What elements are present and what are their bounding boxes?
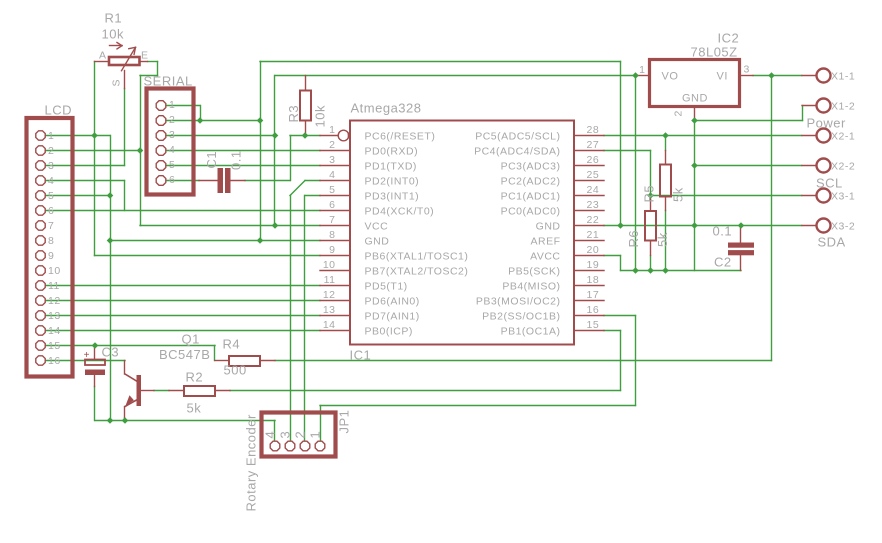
svg-text:9: 9 — [48, 250, 54, 262]
svg-text:25: 25 — [587, 169, 600, 181]
svg-text:Atmega328: Atmega328 — [351, 101, 422, 116]
svg-text:PB3(MOSI/OC2): PB3(MOSI/OC2) — [476, 295, 561, 307]
svg-text:X3-2: X3-2 — [831, 221, 855, 233]
svg-text:GND: GND — [682, 93, 708, 105]
svg-text:PB2(SS/OC1B): PB2(SS/OC1B) — [482, 310, 560, 322]
svg-text:3: 3 — [169, 129, 175, 141]
svg-text:1: 1 — [329, 124, 335, 136]
svg-text:PC3(ADC3): PC3(ADC3) — [501, 160, 561, 172]
svg-text:26: 26 — [587, 154, 600, 166]
svg-text:BC547B: BC547B — [159, 347, 210, 362]
svg-text:2: 2 — [169, 114, 175, 126]
svg-text:PB7(XTAL2/TOSC2): PB7(XTAL2/TOSC2) — [365, 265, 469, 277]
svg-text:3: 3 — [278, 431, 293, 439]
svg-text:1: 1 — [169, 99, 175, 111]
svg-text:PC0(ADC0): PC0(ADC0) — [501, 205, 561, 217]
svg-text:15: 15 — [48, 340, 61, 352]
svg-text:PB5(SCK): PB5(SCK) — [508, 265, 560, 277]
svg-text:PC2(ADC2): PC2(ADC2) — [501, 175, 561, 187]
svg-text:C3: C3 — [102, 345, 120, 360]
svg-text:JP1: JP1 — [337, 410, 352, 434]
svg-text:GND: GND — [365, 235, 390, 247]
svg-text:E: E — [141, 50, 149, 62]
svg-text:20: 20 — [587, 244, 600, 256]
svg-text:SDA: SDA — [818, 235, 846, 250]
svg-text:1: 1 — [48, 130, 54, 142]
svg-text:2: 2 — [673, 110, 685, 116]
svg-text:Power: Power — [807, 116, 847, 131]
svg-text:17: 17 — [587, 289, 600, 301]
svg-text:500: 500 — [224, 363, 247, 378]
svg-text:Rotary Encoder: Rotary Encoder — [244, 414, 259, 511]
svg-text:PC1(ADC1): PC1(ADC1) — [501, 190, 561, 202]
svg-text:16: 16 — [48, 355, 61, 367]
svg-text:PB0(ICP): PB0(ICP) — [365, 325, 413, 337]
svg-text:X3-1: X3-1 — [831, 191, 855, 203]
svg-text:0.1: 0.1 — [713, 224, 733, 239]
svg-text:14: 14 — [48, 325, 61, 337]
svg-text:21: 21 — [587, 229, 600, 241]
svg-text:PD7(AIN1): PD7(AIN1) — [365, 310, 420, 322]
svg-text:13: 13 — [323, 304, 336, 316]
svg-text:0.1: 0.1 — [229, 150, 244, 170]
svg-text:SCL: SCL — [816, 176, 843, 191]
svg-text:3: 3 — [744, 64, 750, 76]
svg-text:22: 22 — [587, 214, 600, 226]
svg-text:PD1(TXD): PD1(TXD) — [365, 160, 417, 172]
svg-text:AREF: AREF — [530, 235, 560, 247]
svg-text:X2-1: X2-1 — [831, 131, 855, 143]
svg-text:4: 4 — [48, 175, 54, 187]
svg-text:PD5(T1): PD5(T1) — [365, 280, 408, 292]
svg-text:PD3(INT1): PD3(INT1) — [365, 190, 420, 202]
svg-text:PD6(AIN0): PD6(AIN0) — [365, 295, 420, 307]
svg-text:19: 19 — [587, 259, 600, 271]
svg-text:12: 12 — [48, 295, 61, 307]
svg-text:6: 6 — [48, 205, 54, 217]
svg-text:+: + — [84, 350, 90, 361]
svg-text:IC2: IC2 — [718, 31, 740, 46]
svg-text:IC1: IC1 — [350, 348, 372, 363]
svg-text:PD4(XCK/T0): PD4(XCK/T0) — [365, 205, 435, 217]
svg-text:10k: 10k — [313, 105, 328, 127]
svg-text:R1: R1 — [105, 11, 123, 26]
svg-text:R5: R5 — [642, 185, 657, 203]
svg-text:10: 10 — [48, 265, 61, 277]
svg-text:PB1(OC1A): PB1(OC1A) — [501, 325, 561, 337]
svg-text:PC6(/RESET): PC6(/RESET) — [365, 130, 436, 142]
svg-text:11: 11 — [48, 280, 60, 292]
svg-text:4: 4 — [169, 144, 175, 156]
svg-text:PB6(XTAL1/TOSC1): PB6(XTAL1/TOSC1) — [365, 250, 469, 262]
svg-text:10k: 10k — [102, 27, 124, 42]
svg-text:1: 1 — [639, 64, 645, 76]
svg-text:SERIAL: SERIAL — [144, 74, 193, 89]
svg-text:28: 28 — [587, 124, 600, 136]
svg-text:PD0(RXD): PD0(RXD) — [365, 145, 419, 157]
svg-text:X1-1: X1-1 — [831, 71, 855, 83]
svg-text:2: 2 — [329, 139, 335, 151]
svg-text:Q1: Q1 — [182, 332, 200, 347]
svg-text:23: 23 — [587, 199, 600, 211]
svg-text:10: 10 — [323, 259, 336, 271]
svg-text:S: S — [111, 79, 123, 87]
svg-text:X1-2: X1-2 — [831, 101, 855, 113]
svg-text:18: 18 — [587, 274, 600, 286]
svg-text:VO: VO — [662, 71, 679, 83]
svg-text:2: 2 — [48, 145, 54, 157]
svg-text:1: 1 — [308, 431, 323, 439]
svg-text:16: 16 — [587, 304, 600, 316]
svg-text:4: 4 — [263, 431, 278, 439]
svg-text:3: 3 — [48, 160, 54, 172]
svg-text:R6: R6 — [626, 230, 641, 248]
svg-text:PC4(ADC4/SDA): PC4(ADC4/SDA) — [474, 145, 560, 157]
svg-text:7: 7 — [48, 220, 54, 232]
svg-text:PC5(ADC5/SCL): PC5(ADC5/SCL) — [475, 130, 560, 142]
svg-text:3: 3 — [329, 154, 335, 166]
svg-text:C1: C1 — [204, 151, 219, 169]
svg-text:78L05Z: 78L05Z — [691, 45, 738, 60]
svg-text:X2-2: X2-2 — [831, 161, 855, 173]
svg-text:5: 5 — [329, 184, 335, 196]
svg-text:5k: 5k — [655, 232, 670, 247]
svg-text:AVCC: AVCC — [530, 250, 560, 262]
svg-text:14: 14 — [323, 319, 336, 331]
svg-text:R2: R2 — [186, 370, 204, 385]
svg-text:5k: 5k — [671, 187, 686, 202]
svg-text:9: 9 — [329, 244, 335, 256]
svg-text:PD2(INT0): PD2(INT0) — [365, 175, 420, 187]
svg-text:C2: C2 — [714, 255, 732, 270]
svg-text:11: 11 — [324, 274, 336, 286]
svg-text:13: 13 — [48, 310, 61, 322]
svg-text:GND: GND — [536, 220, 561, 232]
svg-text:5: 5 — [169, 159, 175, 171]
svg-text:5k: 5k — [187, 401, 202, 416]
svg-text:24: 24 — [587, 184, 600, 196]
svg-text:15: 15 — [587, 319, 600, 331]
svg-text:7: 7 — [329, 214, 335, 226]
svg-text:27: 27 — [587, 139, 600, 151]
svg-text:2: 2 — [293, 431, 308, 439]
svg-text:PB4(MISO): PB4(MISO) — [502, 280, 560, 292]
svg-text:R4: R4 — [223, 337, 241, 352]
svg-text:6: 6 — [329, 199, 335, 211]
svg-text:LCD: LCD — [45, 103, 73, 118]
svg-text:8: 8 — [48, 235, 54, 247]
svg-text:A: A — [99, 50, 107, 62]
svg-text:VCC: VCC — [365, 220, 389, 232]
svg-text:5: 5 — [48, 190, 54, 202]
svg-text:6: 6 — [169, 174, 175, 186]
svg-text:R3: R3 — [286, 105, 301, 123]
svg-text:4: 4 — [329, 169, 335, 181]
svg-text:8: 8 — [329, 229, 335, 241]
svg-text:VI: VI — [717, 71, 728, 83]
svg-text:12: 12 — [323, 289, 336, 301]
